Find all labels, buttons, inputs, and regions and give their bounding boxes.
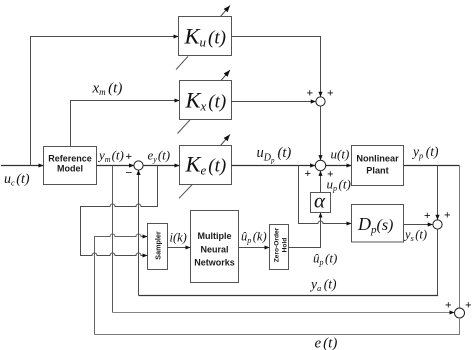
block alpha — [311, 193, 331, 213]
svg-text:Neural: Neural — [200, 244, 228, 254]
wire y_m branch down to sum S5 — [112, 166, 114, 313]
wire u(t) S3 to plant — [326, 165, 352, 167]
wire y_p branch to sum S4 — [437, 166, 439, 220]
svg-text:+: + — [126, 151, 133, 163]
svg-text:ya(t): ya(t) — [309, 277, 337, 294]
svg-text:e(t): e(t) — [315, 336, 338, 350]
block Multiple Neural Networks — [191, 211, 239, 283]
arrow diag Ke lower — [179, 185, 192, 199]
wire y_s Dp to S4 — [404, 224, 433, 226]
wire S2 to S3 — [320, 106, 322, 160]
block Kx — [180, 81, 232, 120]
block Ke — [180, 146, 232, 185]
arrow diag Ku upper — [221, 6, 231, 17]
wire e(t) from S5 bottom to left — [95, 318, 460, 335]
svg-text:Hold: Hold — [282, 238, 289, 253]
svg-text:i(k): i(k) — [170, 231, 187, 245]
summing junction S5 — [455, 308, 465, 318]
block Ku — [179, 17, 232, 56]
svg-text:yp(t): yp(t) — [411, 144, 439, 161]
svg-text:up(t): up(t) — [327, 177, 351, 194]
block Dp — [352, 205, 404, 243]
wire Kx out to sum S2 — [232, 101, 316, 103]
block Sampler — [148, 224, 168, 270]
wire Ku out to sum S2 — [232, 37, 321, 97]
svg-text:+: + — [445, 300, 452, 312]
block Nonlinear Plant — [352, 146, 404, 186]
wire u_p alpha to S3 — [320, 171, 322, 193]
block Reference Model — [44, 147, 97, 185]
svg-text:Sampler: Sampler — [154, 231, 163, 260]
svg-text:+: + — [444, 210, 451, 222]
block Zero-Order Hold — [270, 225, 289, 270]
summing junction S4 — [433, 220, 442, 229]
wire y_m to sum S1 — [97, 165, 135, 167]
wire e feedback up into sampler upper input — [95, 234, 148, 335]
summing junction S2 — [316, 97, 325, 106]
svg-text:+: + — [307, 88, 314, 100]
wire x_m from model top to Kx — [71, 101, 180, 147]
wire ZOH out up to alpha — [289, 213, 321, 248]
wire sampler to MNN — [168, 247, 191, 249]
svg-text:ûp(k): ûp(k) — [241, 230, 267, 246]
svg-text:Networks: Networks — [194, 258, 235, 268]
svg-text:Plant: Plant — [366, 166, 388, 176]
svg-text:Nonlinear: Nonlinear — [356, 154, 399, 164]
svg-text:Zero-Order: Zero-Order — [274, 227, 281, 262]
svg-text:Multiple: Multiple — [198, 231, 232, 241]
svg-text:+: + — [465, 300, 472, 312]
svg-text:Model: Model — [57, 164, 83, 174]
arrow diag Kx lower — [178, 120, 191, 134]
arrow diag Ke upper — [221, 135, 231, 146]
summing junction S1 — [134, 161, 143, 170]
svg-text:−: − — [126, 166, 133, 180]
svg-text:+: + — [305, 168, 312, 180]
arrow diag Kx upper — [221, 70, 230, 81]
svg-text:+: + — [424, 210, 431, 222]
wire u_Dp branch down to Dp — [299, 166, 352, 224]
wire e_y branch down and into sampler lower input — [81, 166, 158, 256]
wire u_Dp from Ke to sum S3 — [232, 165, 316, 167]
wire u_c branch up to Ku — [31, 37, 179, 166]
wire u_c input — [1, 165, 44, 167]
summing junction S3 — [315, 160, 325, 170]
wire y_a from S4 down, left, and up into S1 bottom — [437, 229, 439, 295]
svg-text:ey(t): ey(t) — [148, 148, 171, 165]
svg-text:ys(t): ys(t) — [403, 228, 427, 244]
svg-text:uc(t): uc(t) — [4, 172, 30, 188]
arrow diag Ku lower — [176, 56, 188, 69]
svg-text:u(t): u(t) — [331, 147, 350, 162]
wire MNN to ZOH — [239, 247, 270, 249]
wire e_y to Ke — [143, 165, 180, 167]
svg-text:Reference: Reference — [48, 154, 92, 164]
wire y_p out — [404, 165, 460, 167]
svg-text:ûp(t): ûp(t) — [313, 251, 337, 268]
svg-text:+: + — [327, 88, 334, 100]
